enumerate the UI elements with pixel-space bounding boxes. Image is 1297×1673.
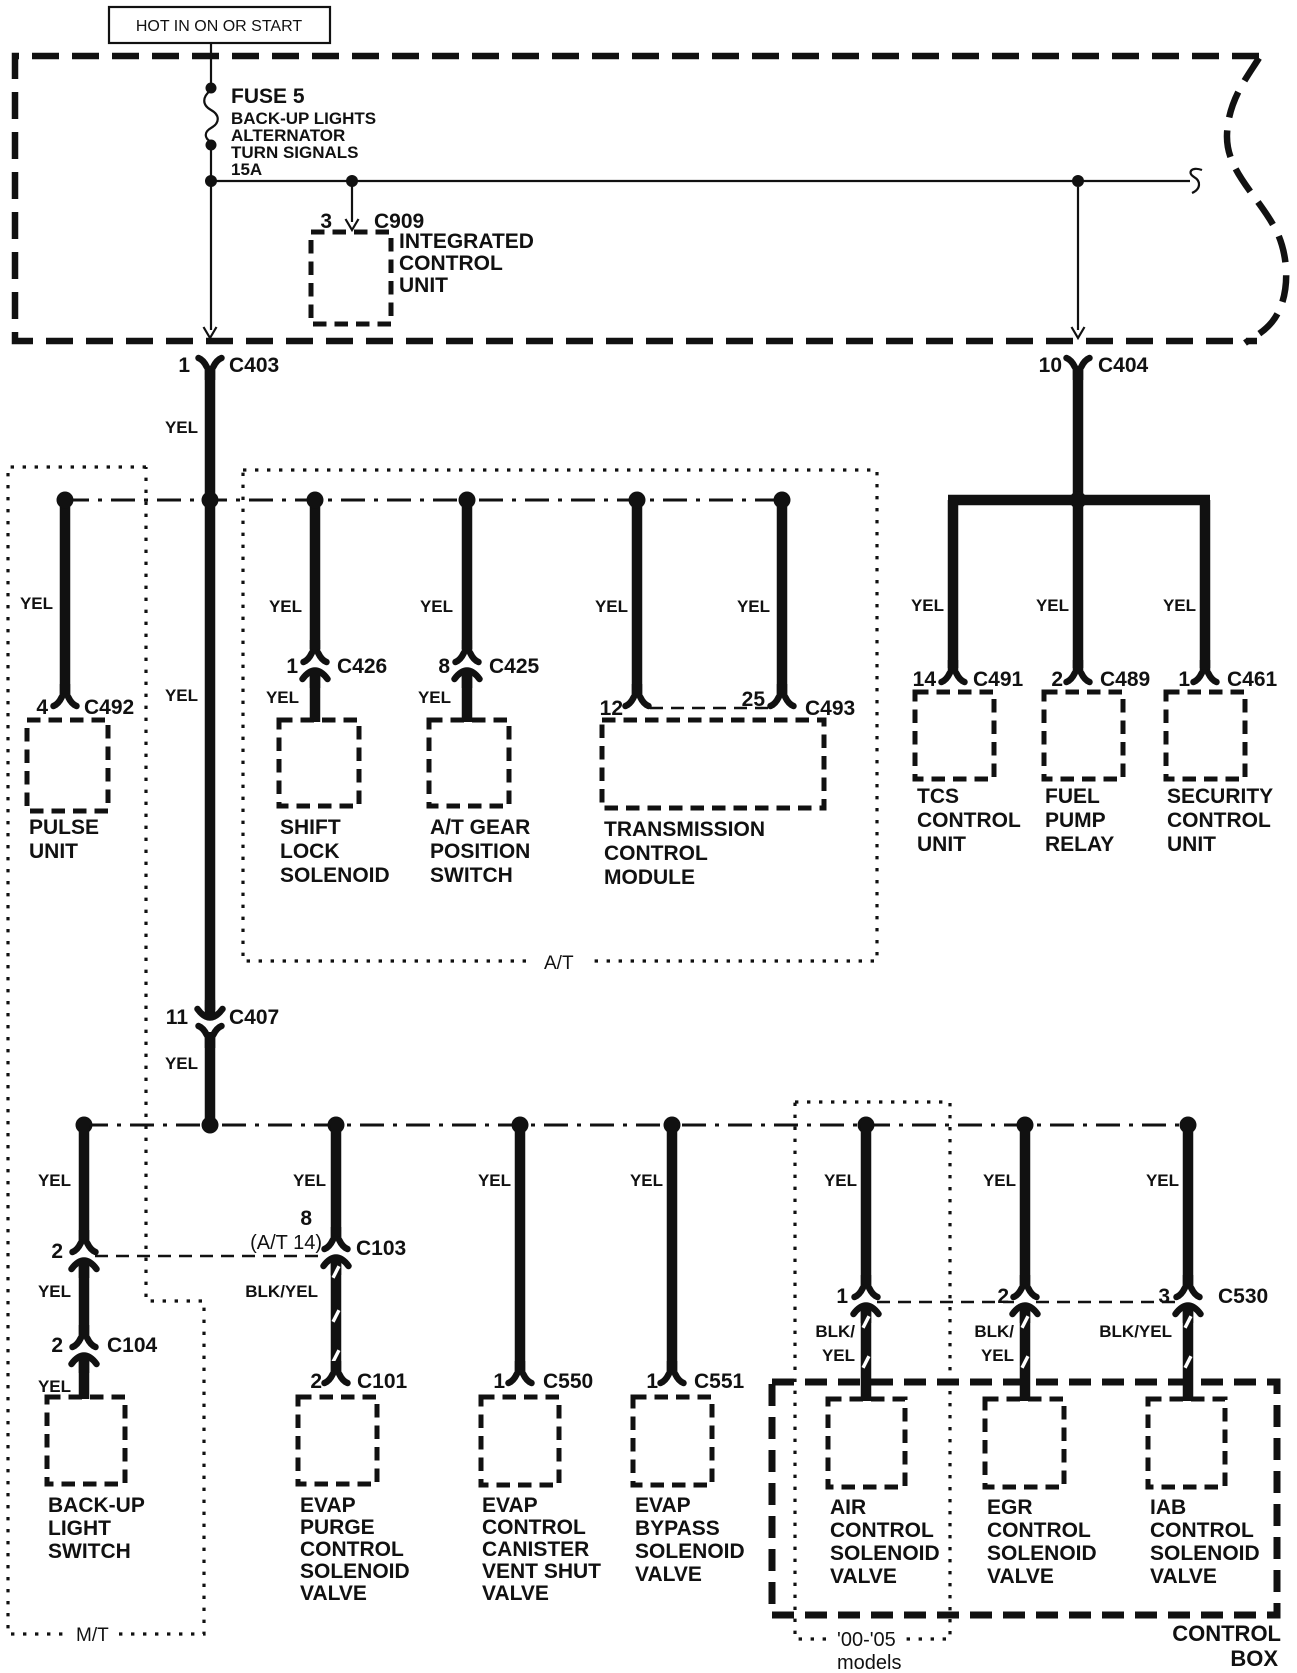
svg-text:BLK/YEL: BLK/YEL — [245, 1282, 318, 1301]
svg-text:2: 2 — [51, 1334, 63, 1357]
svg-text:UNIT: UNIT — [917, 833, 966, 856]
svg-text:A/T GEAR: A/T GEAR — [430, 816, 530, 839]
svg-text:BYPASS: BYPASS — [635, 1517, 720, 1540]
svg-text:UNIT: UNIT — [1167, 833, 1216, 856]
svg-text:C426: C426 — [337, 655, 387, 678]
svg-text:C103: C103 — [356, 1237, 406, 1260]
svg-text:LOCK: LOCK — [280, 840, 340, 863]
svg-text:YEL: YEL — [478, 1171, 511, 1190]
svg-text:VENT SHUT: VENT SHUT — [482, 1560, 601, 1583]
svg-text:C492: C492 — [84, 696, 134, 719]
svg-text:VALVE: VALVE — [482, 1582, 549, 1605]
svg-text:CONTROL: CONTROL — [482, 1516, 586, 1539]
svg-text:VALVE: VALVE — [300, 1582, 367, 1605]
svg-text:VALVE: VALVE — [987, 1565, 1054, 1588]
svg-text:C425: C425 — [489, 655, 540, 678]
svg-text:2: 2 — [51, 1240, 63, 1263]
svg-text:10: 10 — [1039, 354, 1062, 377]
svg-text:PUMP: PUMP — [1045, 809, 1106, 832]
svg-text:CONTROL: CONTROL — [604, 842, 708, 865]
svg-text:BOX: BOX — [1230, 1646, 1278, 1671]
svg-text:YEL: YEL — [165, 686, 198, 705]
svg-text:YEL: YEL — [983, 1171, 1016, 1190]
svg-text:C493: C493 — [805, 697, 855, 720]
svg-text:8: 8 — [300, 1207, 312, 1230]
svg-text:YEL: YEL — [293, 1171, 326, 1190]
svg-text:'00-'05: '00-'05 — [837, 1629, 896, 1651]
svg-text:SHIFT: SHIFT — [280, 816, 341, 839]
svg-text:8: 8 — [438, 655, 450, 678]
svg-text:YEL: YEL — [165, 1054, 198, 1073]
svg-text:FUEL: FUEL — [1045, 785, 1100, 808]
svg-text:CONTROL: CONTROL — [830, 1519, 934, 1542]
svg-text:BLK/YEL: BLK/YEL — [1099, 1322, 1172, 1341]
svg-text:1: 1 — [1178, 668, 1190, 691]
svg-text:SWITCH: SWITCH — [430, 864, 513, 887]
svg-text:SOLENOID: SOLENOID — [300, 1560, 410, 1583]
svg-text:YEL: YEL — [165, 418, 198, 437]
svg-text:YEL: YEL — [630, 1171, 663, 1190]
svg-text:HOT IN ON OR START: HOT IN ON OR START — [136, 18, 302, 35]
svg-text:YEL: YEL — [1146, 1171, 1179, 1190]
svg-text:14: 14 — [913, 668, 937, 691]
svg-text:YEL: YEL — [38, 1377, 71, 1396]
svg-text:FUSE 5: FUSE 5 — [231, 85, 305, 108]
svg-text:VALVE: VALVE — [1150, 1565, 1217, 1588]
svg-text:15A: 15A — [231, 160, 262, 179]
svg-text:POSITION: POSITION — [430, 840, 530, 863]
svg-text:TCS: TCS — [917, 785, 959, 808]
svg-text:YEL: YEL — [1036, 596, 1069, 615]
svg-text:BLK/: BLK/ — [974, 1322, 1014, 1341]
svg-text:SOLENOID: SOLENOID — [1150, 1542, 1260, 1565]
svg-text:YEL: YEL — [269, 597, 302, 616]
svg-text:YEL: YEL — [38, 1171, 71, 1190]
svg-text:CONTROL: CONTROL — [1172, 1621, 1281, 1646]
svg-text:1: 1 — [178, 354, 190, 377]
svg-text:(A/T 14): (A/T 14) — [250, 1232, 322, 1254]
svg-text:BACK-UP: BACK-UP — [48, 1494, 145, 1517]
svg-text:IAB: IAB — [1150, 1496, 1186, 1519]
svg-text:SOLENOID: SOLENOID — [635, 1540, 745, 1563]
svg-text:C489: C489 — [1100, 668, 1150, 691]
svg-text:YEL: YEL — [737, 597, 770, 616]
svg-text:LIGHT: LIGHT — [48, 1517, 111, 1540]
svg-text:SWITCH: SWITCH — [48, 1540, 131, 1563]
svg-text:UNIT: UNIT — [29, 840, 78, 863]
svg-text:CONTROL: CONTROL — [987, 1519, 1091, 1542]
svg-text:2: 2 — [310, 1370, 322, 1393]
svg-text:C550: C550 — [543, 1370, 593, 1393]
svg-text:C101: C101 — [357, 1370, 408, 1393]
svg-text:1: 1 — [286, 655, 298, 678]
svg-text:1: 1 — [493, 1370, 505, 1393]
svg-text:3: 3 — [1158, 1285, 1170, 1308]
svg-text:EVAP: EVAP — [635, 1494, 691, 1517]
svg-text:SECURITY: SECURITY — [1167, 785, 1273, 808]
svg-text:C491: C491 — [973, 668, 1024, 691]
svg-text:12: 12 — [600, 697, 623, 720]
svg-text:SOLENOID: SOLENOID — [280, 864, 390, 887]
svg-text:PURGE: PURGE — [300, 1516, 375, 1539]
svg-text:CONTROL: CONTROL — [1167, 809, 1271, 832]
svg-text:CONTROL: CONTROL — [300, 1538, 404, 1561]
svg-text:C403: C403 — [229, 354, 279, 377]
svg-text:4: 4 — [36, 696, 48, 719]
svg-text:INTEGRATED: INTEGRATED — [399, 230, 534, 253]
svg-text:BLK/: BLK/ — [815, 1322, 855, 1341]
svg-text:1: 1 — [646, 1370, 658, 1393]
svg-text:M/T: M/T — [76, 1625, 109, 1646]
svg-text:2: 2 — [1051, 668, 1063, 691]
svg-text:UNIT: UNIT — [399, 274, 448, 297]
svg-text:C530: C530 — [1218, 1285, 1268, 1308]
svg-text:YEL: YEL — [38, 1282, 71, 1301]
svg-text:models: models — [837, 1652, 901, 1673]
svg-text:YEL: YEL — [420, 597, 453, 616]
svg-text:C551: C551 — [694, 1370, 745, 1393]
svg-text:YEL: YEL — [20, 594, 53, 613]
svg-text:CONTROL: CONTROL — [1150, 1519, 1254, 1542]
svg-text:YEL: YEL — [981, 1346, 1014, 1365]
svg-text:SOLENOID: SOLENOID — [987, 1542, 1097, 1565]
svg-text:YEL: YEL — [266, 688, 299, 707]
svg-text:2: 2 — [997, 1285, 1009, 1308]
svg-text:TRANSMISSION: TRANSMISSION — [604, 818, 765, 841]
svg-text:YEL: YEL — [418, 688, 451, 707]
svg-text:YEL: YEL — [595, 597, 628, 616]
svg-text:A/T: A/T — [544, 953, 574, 974]
svg-text:1: 1 — [836, 1285, 848, 1308]
svg-text:EVAP: EVAP — [482, 1494, 538, 1517]
svg-text:CANISTER: CANISTER — [482, 1538, 589, 1561]
svg-text:11: 11 — [166, 1006, 189, 1029]
svg-text:EGR: EGR — [987, 1496, 1033, 1519]
svg-text:YEL: YEL — [911, 596, 944, 615]
svg-text:CONTROL: CONTROL — [917, 809, 1021, 832]
svg-text:VALVE: VALVE — [830, 1565, 897, 1588]
svg-text:C461: C461 — [1227, 668, 1278, 691]
svg-text:MODULE: MODULE — [604, 866, 695, 889]
svg-text:C407: C407 — [229, 1006, 279, 1029]
svg-text:SOLENOID: SOLENOID — [830, 1542, 940, 1565]
svg-text:YEL: YEL — [824, 1171, 857, 1190]
svg-text:RELAY: RELAY — [1045, 833, 1114, 856]
svg-text:EVAP: EVAP — [300, 1494, 356, 1517]
svg-text:AIR: AIR — [830, 1496, 866, 1519]
svg-text:VALVE: VALVE — [635, 1563, 702, 1586]
svg-text:YEL: YEL — [822, 1346, 855, 1365]
svg-text:C404: C404 — [1098, 354, 1149, 377]
svg-text:YEL: YEL — [1163, 596, 1196, 615]
svg-text:PULSE: PULSE — [29, 816, 99, 839]
svg-text:CONTROL: CONTROL — [399, 252, 503, 275]
svg-text:C104: C104 — [107, 1334, 158, 1357]
